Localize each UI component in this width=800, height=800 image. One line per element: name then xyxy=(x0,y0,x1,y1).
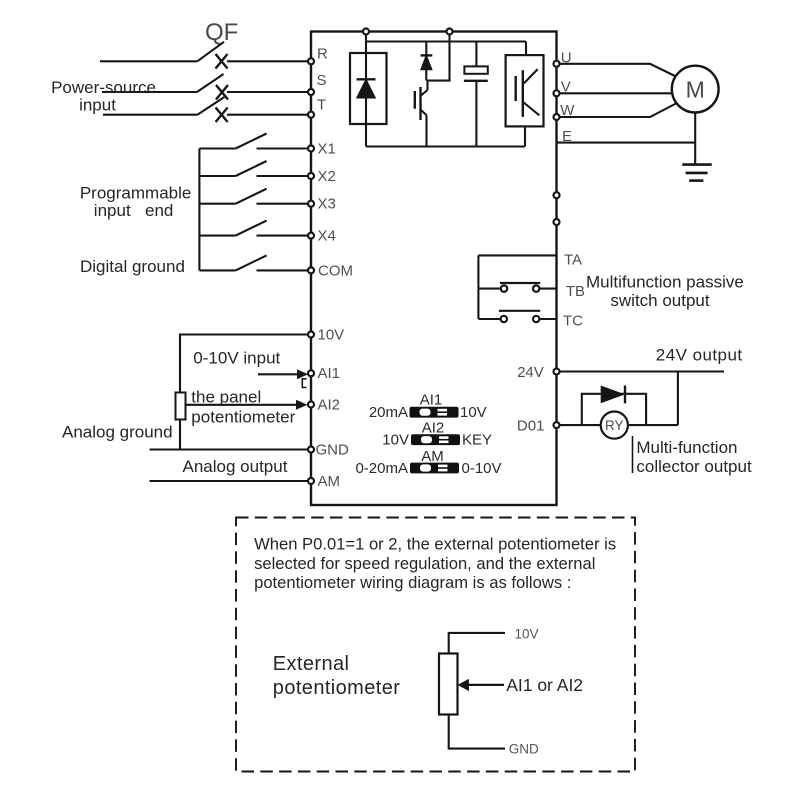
svg-text:selected for speed regulation,: selected for speed regulation, and the e… xyxy=(254,554,595,573)
terminal X1 xyxy=(308,146,314,152)
svg-text:X4: X4 xyxy=(318,228,336,245)
terminal V xyxy=(554,90,560,96)
terminal R xyxy=(308,58,314,64)
switch X1 xyxy=(199,134,308,149)
svg-text:RY: RY xyxy=(605,418,624,433)
svg-text:X2: X2 xyxy=(318,168,336,185)
wire: chopper collector node xyxy=(427,35,450,81)
svg-text:External: External xyxy=(273,653,350,675)
note box (dashed) xyxy=(236,518,635,772)
flyback diode loop xyxy=(582,394,646,425)
label: Multi-function collector output xyxy=(636,438,752,476)
IGBT symbol inverter xyxy=(516,69,540,117)
svg-text:10V: 10V xyxy=(515,626,539,641)
wire: external pot top to 10V xyxy=(449,633,505,654)
digital input bus xyxy=(198,149,200,271)
ground (earth symbol) xyxy=(682,165,711,181)
wire motor to ground xyxy=(694,113,696,165)
wire TA xyxy=(478,254,556,256)
svg-text:When P0.01=1 or 2, the externa: When P0.01=1 or 2, the external potentio… xyxy=(254,535,616,554)
svg-text:AM: AM xyxy=(318,473,341,490)
jumper J3 AM xyxy=(355,448,501,477)
wire: node1 down to rectifier xyxy=(365,35,367,54)
terminal U xyxy=(554,61,560,67)
wire D01 to RY xyxy=(560,424,601,426)
wire T phase to terminal T xyxy=(227,114,308,116)
svg-text:S: S xyxy=(317,72,327,89)
flyback diode D2 xyxy=(601,386,625,404)
terminal AI2 xyxy=(308,402,314,408)
terminal X4 xyxy=(308,233,314,239)
DC- rail xyxy=(366,145,525,147)
breaker QF pole S xyxy=(197,74,228,100)
terminal 24V xyxy=(554,369,560,375)
IGBT Q1 brake chopper xyxy=(415,81,428,120)
wire V to motor xyxy=(560,92,672,94)
wire: 10V to panel pot xyxy=(180,335,308,393)
svg-text:potentiometer: potentiometer xyxy=(191,408,295,427)
inverter main box xyxy=(311,32,557,506)
svg-text:R: R xyxy=(317,46,328,63)
svg-text:COM: COM xyxy=(318,262,353,279)
terminal AI1 xyxy=(308,370,314,376)
wire T phase from source xyxy=(103,114,197,116)
relay contact TC (NO) xyxy=(478,311,556,322)
svg-text:X3: X3 xyxy=(318,196,336,213)
svg-text:0-10V input: 0-10V input xyxy=(193,349,280,368)
tick mark xyxy=(632,436,634,473)
breaker QF pole R xyxy=(197,42,227,69)
svg-text:T: T xyxy=(317,97,326,114)
svg-text:AM: AM xyxy=(421,448,444,465)
svg-text:AI2: AI2 xyxy=(318,396,341,413)
DC bus junction node 2 xyxy=(447,29,453,35)
terminal 10V xyxy=(308,332,314,338)
svg-text:QF: QF xyxy=(205,19,238,46)
svg-text:Digital ground: Digital ground xyxy=(80,257,185,276)
rectifier block xyxy=(350,53,387,124)
wire S phase from source xyxy=(102,91,197,93)
svg-text:the panel: the panel xyxy=(191,388,261,407)
svg-text:switch output: switch output xyxy=(610,291,709,310)
switch COM xyxy=(199,255,308,270)
relay common bus xyxy=(477,255,479,319)
arrow to AI2 (pot wiper) xyxy=(186,400,308,410)
terminal S xyxy=(308,89,314,95)
svg-text:GND: GND xyxy=(316,441,350,458)
terminal X2 xyxy=(308,173,314,179)
inverter output block xyxy=(506,55,544,126)
wire: DC+ bus xyxy=(366,40,526,42)
svg-text:AI1: AI1 xyxy=(318,365,341,382)
svg-text:D01: D01 xyxy=(517,418,545,435)
switch X4 xyxy=(199,221,308,236)
bracket mark under AI1 xyxy=(302,379,306,388)
wire: analog output AM xyxy=(150,480,309,482)
svg-text:Analog ground: Analog ground xyxy=(62,423,173,442)
potentiometer RP1 (panel) xyxy=(176,393,186,420)
terminal COM xyxy=(308,267,314,273)
svg-text:Multi-function: Multi-function xyxy=(636,438,737,457)
wire R phase from source xyxy=(100,60,197,62)
label: the panel potentiometer xyxy=(191,388,295,427)
terminal W xyxy=(554,114,560,120)
jumper J2 AI2 xyxy=(382,420,492,449)
wire RY to 24V drop xyxy=(628,424,678,426)
svg-text:GND: GND xyxy=(509,742,539,757)
terminal GND xyxy=(308,447,314,453)
wire 24V output xyxy=(560,370,725,372)
note text xyxy=(254,535,616,593)
arrow to AI1 xyxy=(258,369,308,379)
relay contact TB (NC) xyxy=(478,283,556,292)
rectifier diode xyxy=(357,53,376,124)
wire: DC+ bus to inverter block xyxy=(525,42,527,56)
brake diode xyxy=(421,42,433,81)
svg-text:collector output: collector output xyxy=(636,457,752,476)
svg-text:0-10V: 0-10V xyxy=(462,460,502,477)
svg-text:0-20mA: 0-20mA xyxy=(355,460,408,477)
label: Power-source input xyxy=(51,78,156,115)
svg-text:TC: TC xyxy=(563,313,583,330)
wire E to earth xyxy=(557,142,696,144)
svg-text:20mA: 20mA xyxy=(369,404,408,421)
wire 24V drop to D01 loop xyxy=(677,372,679,426)
terminal AM xyxy=(308,478,314,484)
wire: chopper emitter to DC- rail xyxy=(425,115,427,146)
capacitor C1 xyxy=(464,42,488,147)
wire U to motor xyxy=(560,64,677,77)
svg-text:TB: TB xyxy=(566,283,585,300)
svg-text:24V output: 24V output xyxy=(656,346,743,365)
svg-text:AI1 or AI2: AI1 or AI2 xyxy=(506,675,583,695)
svg-text:potentiometer wiring diagram i: potentiometer wiring diagram is as follo… xyxy=(254,573,571,592)
potentiometer RP2 (external) xyxy=(439,654,458,715)
wire S phase to terminal S xyxy=(227,91,308,93)
wire: external pot bottom to GND xyxy=(449,715,505,749)
label: Programmable input end xyxy=(80,184,192,221)
wire: inverter to DC- rail xyxy=(524,126,526,146)
terminal D01 xyxy=(554,422,560,428)
svg-text:input: input xyxy=(94,201,131,220)
terminal (unlabeled upper) xyxy=(554,192,560,198)
wire R phase to terminal R xyxy=(227,60,308,62)
terminal T xyxy=(308,112,314,118)
terminal (unlabeled lower) xyxy=(554,219,560,225)
label: Multifunction passive switch output xyxy=(586,272,744,310)
wire: pot bottom to analog ground xyxy=(179,420,181,450)
svg-text:AI1: AI1 xyxy=(420,392,443,409)
jumper J1 AI1 xyxy=(369,392,487,421)
svg-text:10V: 10V xyxy=(318,326,345,343)
svg-text:10V: 10V xyxy=(382,432,409,449)
svg-text:24V: 24V xyxy=(517,364,544,381)
svg-text:potentiometer: potentiometer xyxy=(273,677,401,699)
svg-text:KEY: KEY xyxy=(462,432,492,449)
svg-text:TA: TA xyxy=(564,251,582,268)
svg-text:input: input xyxy=(79,96,116,115)
svg-text:Multifunction passive: Multifunction passive xyxy=(586,272,744,291)
switch X3 xyxy=(199,189,308,204)
svg-text:AI2: AI2 xyxy=(422,420,445,437)
wire W to motor xyxy=(560,104,677,118)
switch X2 xyxy=(199,161,308,176)
svg-text:Programmable: Programmable xyxy=(80,184,192,203)
svg-text:M: M xyxy=(686,77,705,103)
svg-text:10V: 10V xyxy=(460,404,487,421)
label: External potentiometer xyxy=(273,653,401,699)
terminal X3 xyxy=(308,201,314,207)
svg-text:end: end xyxy=(145,201,173,220)
svg-text:Analog output: Analog output xyxy=(183,457,288,476)
svg-text:Power-source: Power-source xyxy=(51,78,156,97)
relay coil RY xyxy=(601,412,628,439)
svg-text:X1: X1 xyxy=(318,140,336,157)
DC bus junction node 1 xyxy=(363,29,369,35)
motor M1 xyxy=(672,66,719,113)
arrow: AI1 or AI2 to wiper xyxy=(457,679,504,691)
wire: analog ground GND xyxy=(150,448,309,450)
breaker QF pole T xyxy=(197,97,227,122)
wire: rectifier to DC- rail xyxy=(365,124,367,147)
